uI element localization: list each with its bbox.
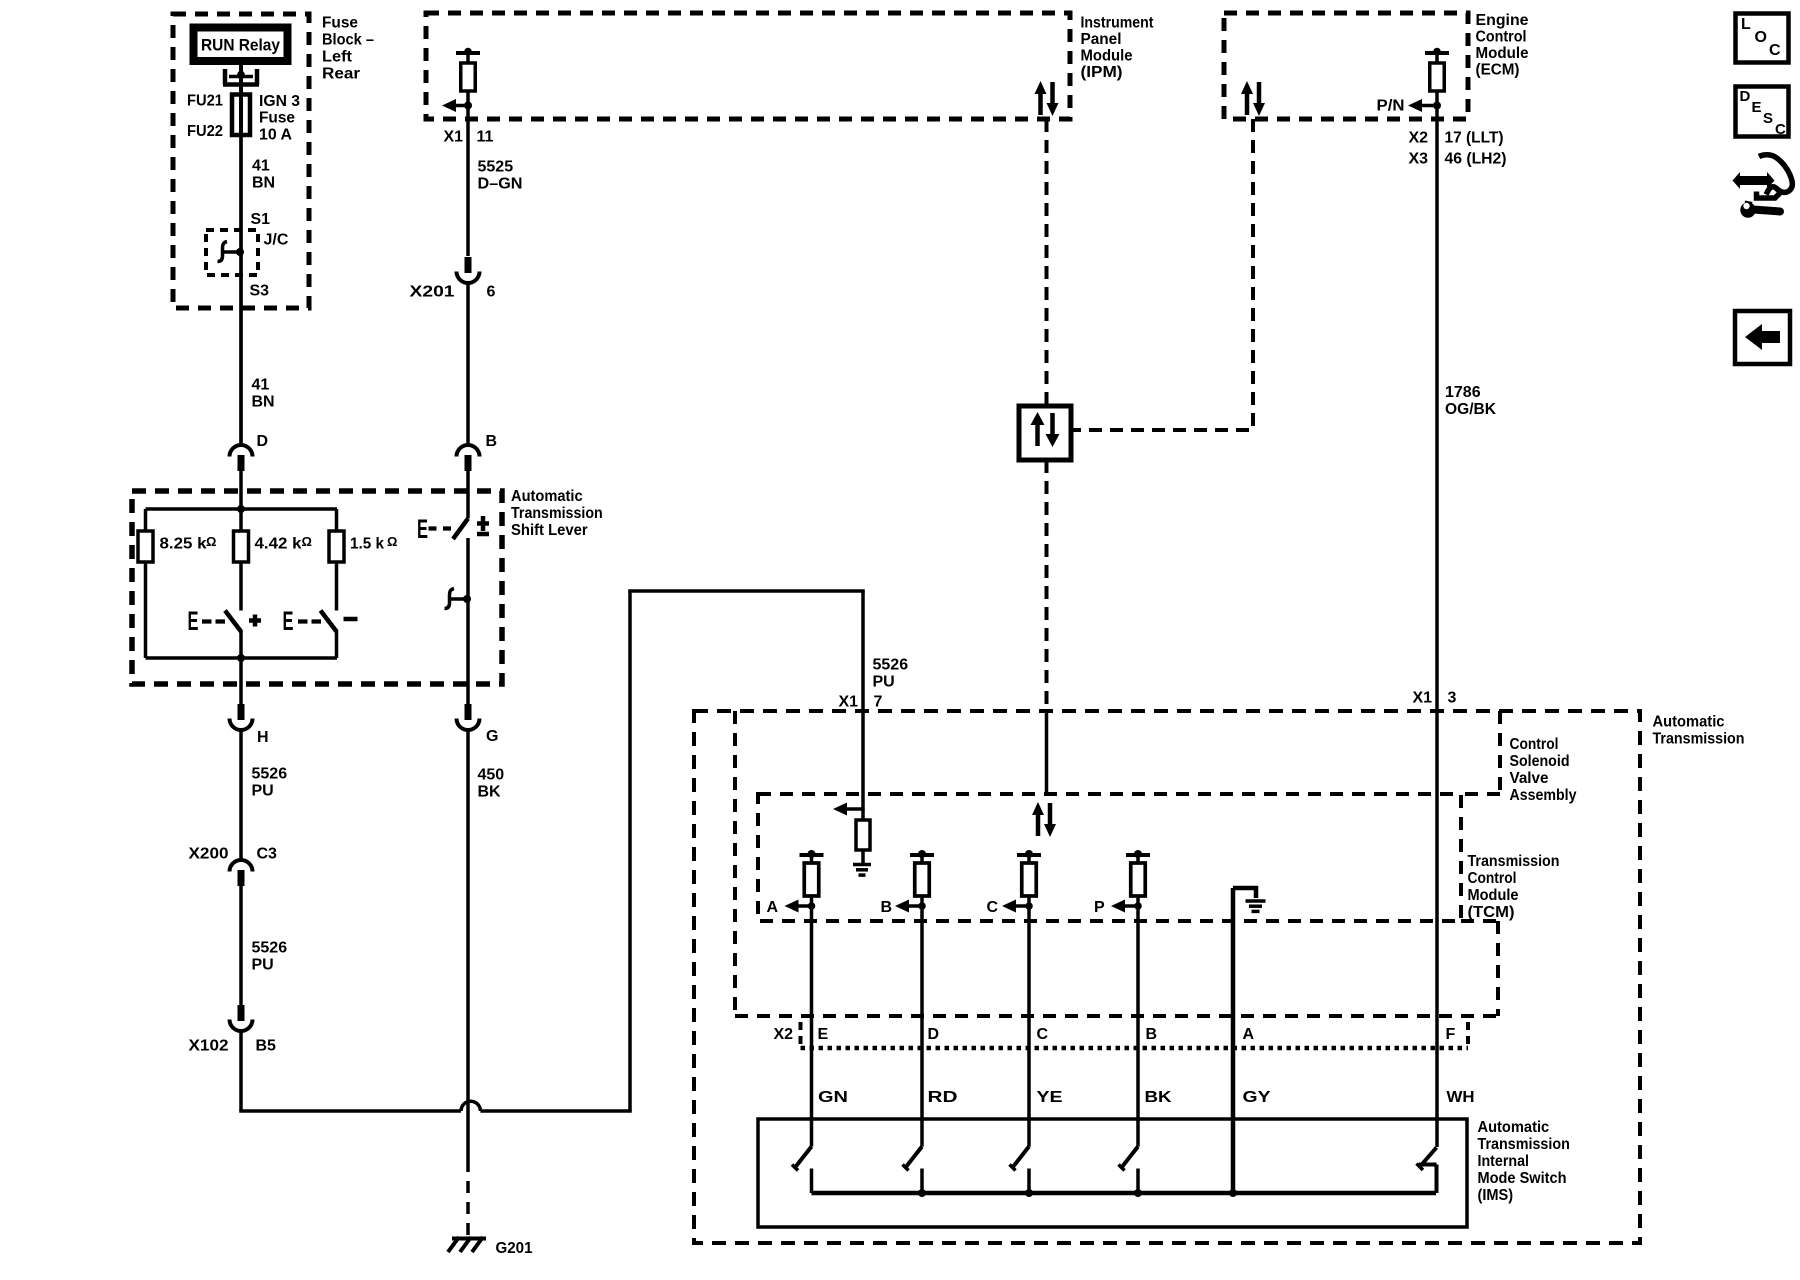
svg-text:GY: GY: [1243, 1089, 1271, 1106]
svg-text:PU: PU: [873, 674, 895, 691]
svg-text:Mode Switch: Mode Switch: [1478, 1170, 1567, 1187]
svg-text:OG/BK: OG/BK: [1445, 401, 1496, 418]
svg-text:(TCM): (TCM): [1468, 904, 1515, 921]
svg-text:Ω: Ω: [387, 534, 397, 549]
svg-text:S3: S3: [250, 283, 270, 300]
svg-text:41: 41: [252, 158, 270, 175]
svg-text:46 (LH2): 46 (LH2): [1445, 151, 1507, 168]
svg-text:5526: 5526: [252, 940, 288, 957]
svg-text:P: P: [1094, 899, 1105, 916]
svg-text:450: 450: [478, 767, 505, 784]
svg-text:RD: RD: [928, 1089, 958, 1106]
svg-text:(IMS): (IMS): [1478, 1187, 1514, 1204]
svg-text:(ECM): (ECM): [1476, 62, 1520, 79]
svg-text:C: C: [1775, 121, 1786, 138]
svg-text:Assembly: Assembly: [1510, 787, 1577, 804]
svg-text:G: G: [486, 728, 498, 745]
svg-text:1.5 k: 1.5 k: [350, 536, 384, 553]
svg-text:D: D: [257, 433, 269, 450]
svg-text:WH: WH: [1447, 1089, 1475, 1106]
svg-text:6: 6: [487, 284, 496, 301]
svg-text:B: B: [881, 899, 893, 916]
svg-text:BK: BK: [478, 784, 502, 801]
svg-text:E: E: [283, 606, 294, 636]
svg-text:X200: X200: [189, 846, 229, 863]
svg-text:D: D: [1740, 88, 1751, 105]
svg-text:5526: 5526: [252, 766, 288, 783]
svg-text:X1: X1: [839, 694, 859, 711]
svg-text:(IPM): (IPM): [1081, 64, 1123, 81]
svg-text:E: E: [188, 606, 199, 636]
svg-text:5526: 5526: [873, 657, 909, 674]
svg-text:Valve: Valve: [1510, 770, 1549, 787]
svg-text:Control: Control: [1510, 736, 1559, 753]
svg-text:Ω: Ω: [302, 534, 312, 549]
svg-text:B: B: [1146, 1026, 1158, 1043]
svg-text:X2: X2: [1409, 130, 1429, 147]
svg-text:BN: BN: [252, 175, 275, 192]
svg-text:Automatic: Automatic: [1478, 1119, 1550, 1136]
svg-text:Engine: Engine: [1476, 12, 1529, 29]
svg-text:Automatic: Automatic: [511, 488, 583, 505]
svg-text:IGN 3: IGN 3: [259, 93, 300, 110]
svg-text:Automatic: Automatic: [1653, 714, 1725, 731]
svg-text:C: C: [1769, 42, 1781, 59]
svg-text:Transmission: Transmission: [1653, 731, 1745, 748]
svg-text:D–GN: D–GN: [478, 176, 523, 193]
svg-text:41: 41: [252, 377, 270, 394]
svg-text:X3: X3: [1409, 151, 1429, 168]
svg-text:C: C: [1037, 1026, 1049, 1043]
svg-text:Shift Lever: Shift Lever: [511, 522, 588, 539]
svg-text:Left: Left: [322, 49, 353, 66]
svg-text:Internal: Internal: [1478, 1153, 1530, 1170]
svg-text:8.25 k: 8.25 k: [160, 536, 207, 553]
svg-text:S1: S1: [251, 211, 271, 228]
svg-text:Control: Control: [1468, 870, 1517, 887]
svg-text:E: E: [417, 514, 428, 544]
svg-text:A: A: [1243, 1026, 1255, 1043]
svg-text:X201: X201: [410, 284, 455, 301]
svg-text:A: A: [767, 899, 779, 916]
svg-text:E: E: [818, 1026, 829, 1043]
svg-text:FU22: FU22: [187, 123, 223, 140]
svg-text:3: 3: [1448, 690, 1457, 707]
svg-text:E: E: [1752, 99, 1762, 116]
svg-text:Control: Control: [1476, 29, 1527, 46]
svg-text:PU: PU: [252, 783, 274, 800]
svg-text:X1: X1: [1413, 690, 1433, 707]
svg-text:Rear: Rear: [322, 66, 360, 83]
svg-text:Fuse: Fuse: [322, 15, 358, 32]
svg-text:Instrument: Instrument: [1081, 15, 1155, 32]
svg-text:BN: BN: [252, 394, 275, 411]
svg-text:Panel: Panel: [1081, 31, 1122, 48]
svg-text:Transmission: Transmission: [511, 505, 603, 522]
svg-text:Ω: Ω: [206, 534, 216, 549]
svg-text:11: 11: [477, 129, 494, 146]
svg-text:S: S: [1763, 110, 1773, 127]
svg-text:X2: X2: [774, 1026, 794, 1043]
svg-text:G201: G201: [496, 1240, 533, 1257]
svg-text:Block –: Block –: [322, 32, 374, 49]
svg-text:BK: BK: [1145, 1089, 1173, 1106]
svg-text:P/N: P/N: [1377, 98, 1405, 115]
svg-text:Transmission: Transmission: [1468, 853, 1560, 870]
svg-text:YE: YE: [1037, 1089, 1063, 1106]
svg-text:Solenoid: Solenoid: [1510, 753, 1570, 770]
svg-text:GN: GN: [818, 1089, 848, 1106]
svg-text:10 A: 10 A: [259, 127, 292, 144]
svg-text:B: B: [486, 433, 498, 450]
svg-text:FU21: FU21: [187, 93, 223, 110]
svg-text:C: C: [987, 899, 999, 916]
svg-text:Module: Module: [1081, 48, 1133, 65]
svg-text:RUN Relay: RUN Relay: [201, 36, 280, 55]
svg-text:X1: X1: [444, 129, 464, 146]
svg-text:5525: 5525: [478, 159, 514, 176]
svg-text:L: L: [1741, 16, 1751, 33]
svg-text:B5: B5: [256, 1038, 277, 1055]
svg-text:X102: X102: [189, 1038, 229, 1055]
svg-text:O: O: [1755, 29, 1767, 46]
svg-text:D: D: [928, 1026, 940, 1043]
svg-text:7: 7: [874, 694, 883, 711]
svg-text:F: F: [1446, 1026, 1456, 1043]
svg-text:PU: PU: [252, 957, 274, 974]
svg-text:C3: C3: [257, 846, 278, 863]
svg-text:Module: Module: [1476, 45, 1529, 62]
svg-text:17 (LLT): 17 (LLT): [1445, 130, 1504, 147]
svg-text:H: H: [257, 729, 269, 746]
svg-text:4.42 k: 4.42 k: [255, 536, 302, 553]
svg-text:Transmission: Transmission: [1478, 1136, 1570, 1153]
svg-text:J/C: J/C: [264, 232, 289, 249]
svg-text:Fuse: Fuse: [259, 110, 295, 127]
svg-text:Module: Module: [1468, 887, 1519, 904]
svg-text:1786: 1786: [1445, 384, 1481, 401]
